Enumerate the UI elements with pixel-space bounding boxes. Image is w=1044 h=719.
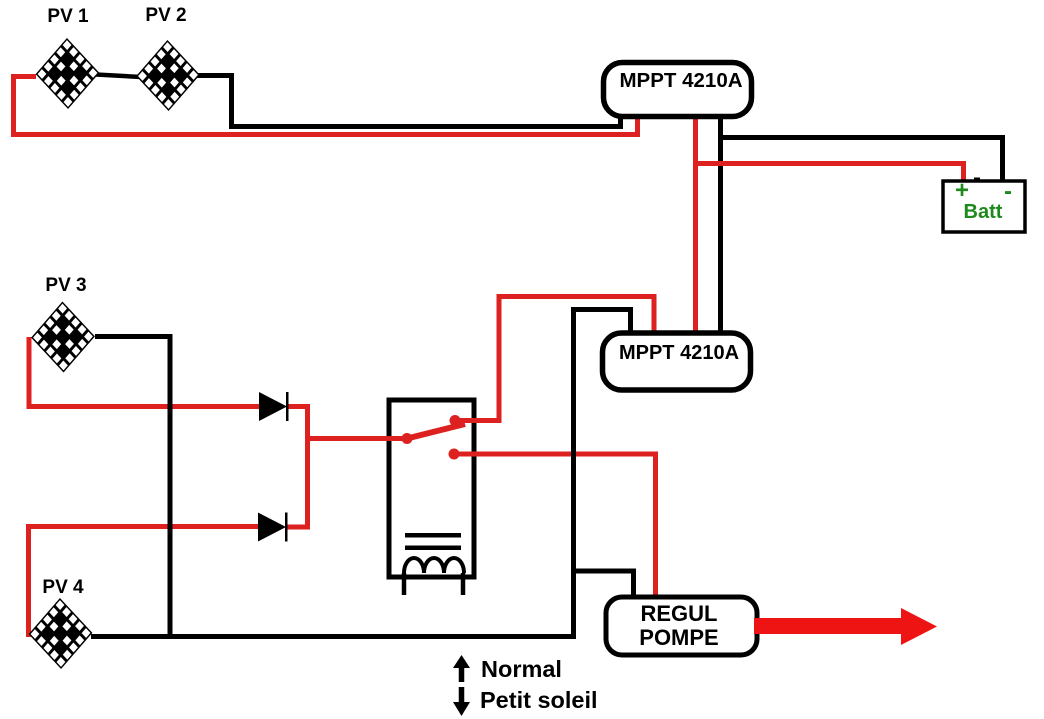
svg-text:Normal: Normal [481, 656, 562, 682]
svg-text:PV 1: PV 1 [47, 6, 89, 27]
svg-text:MPPT 4210A: MPPT 4210A [619, 342, 739, 364]
svg-text:PV 2: PV 2 [145, 5, 186, 26]
svg-text:MPPT 4210A: MPPT 4210A [619, 69, 742, 92]
svg-text:PV 4: PV 4 [42, 577, 84, 598]
svg-text:-: - [1004, 178, 1012, 205]
svg-text:+: + [955, 177, 969, 204]
svg-text:REGUL: REGUL [641, 601, 718, 626]
svg-text:Petit soleil: Petit soleil [480, 687, 598, 713]
svg-text:PV 3: PV 3 [45, 275, 86, 296]
svg-text:POMPE: POMPE [639, 625, 718, 650]
svg-text:Batt: Batt [964, 201, 1003, 223]
